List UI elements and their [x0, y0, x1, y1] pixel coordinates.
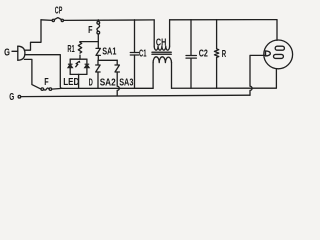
svg-text:LED: LED: [63, 76, 79, 88]
svg-text:F: F: [88, 25, 92, 36]
svg-text:C2: C2: [199, 49, 208, 60]
svg-text:SA2: SA2: [100, 77, 116, 89]
svg-text:D: D: [89, 76, 93, 88]
svg-text:R1: R1: [67, 44, 75, 55]
svg-text:R: R: [222, 49, 227, 60]
svg-text:SA3: SA3: [119, 77, 133, 89]
svg-text:CH: CH: [156, 38, 166, 49]
svg-text:SA1: SA1: [102, 46, 117, 57]
svg-text:C1: C1: [139, 49, 147, 60]
svg-text:G: G: [4, 47, 10, 58]
svg-text:F: F: [44, 77, 48, 88]
svg-text:G: G: [9, 92, 14, 103]
svg-text:CP: CP: [55, 6, 63, 17]
